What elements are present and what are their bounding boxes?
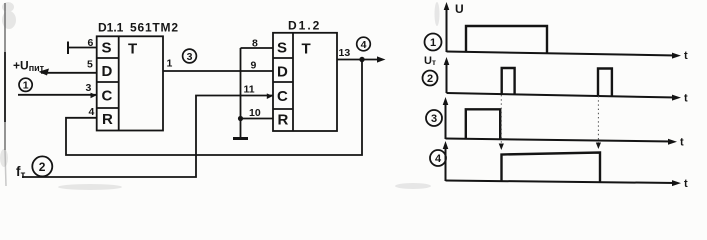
svg-text:t: t [680,137,684,149]
svg-text:561ТМ2: 561ТМ2 [130,21,179,35]
svg-text:C: C [277,88,288,105]
junction dot on R net [238,116,243,121]
svg-text:2: 2 [427,73,433,85]
D1.2 pin letters S D C R T [277,40,311,129]
node 3 circle [183,49,197,63]
junction dot output node [359,57,364,62]
wire pin 8 (S input) [241,47,274,49]
svg-text:U: U [455,2,464,16]
svg-text:11: 11 [244,84,255,96]
ground bar [233,137,248,140]
pin 6 tick terminal [67,42,69,55]
waveform 4: wide pulse [502,153,601,183]
svg-text:fт: fт [16,164,26,181]
svg-text:Uт: Uт [424,55,436,67]
trace 2 time axis with arrow [447,93,682,101]
clock arrow into pin 11 [267,93,273,99]
svg-text:t: t [684,93,688,105]
waveform 2: two narrow pulses [502,68,515,94]
svg-text:3: 3 [187,51,193,63]
trace 4 time axis with arrow [446,180,682,186]
svg-text:T: T [128,41,137,58]
svg-text:13: 13 [339,47,351,59]
trace 4 vertical axis [443,141,449,181]
svg-text:2: 2 [39,160,46,174]
wire fT to pin 11 (C of D1.2) [22,96,273,178]
scan artifact: faint smudges [0,2,440,190]
trace 2 vertical axis [444,57,450,93]
svg-text:R: R [102,111,113,128]
wire node 1 to pin 3 (C input) with clock arrow [18,93,97,99]
svg-text:10: 10 [249,107,261,119]
node 1 input circle [19,78,32,91]
trace 3 node circle 3 [426,110,442,126]
svg-text:3: 3 [431,113,437,125]
svg-text:+Uпит: +Uпит [13,59,45,74]
svg-text:4: 4 [361,39,367,51]
svg-text:3: 3 [86,82,92,94]
scan artifact: page left edge line [5,3,6,186]
dotted timing reference line 2 with down arrow [596,96,601,149]
waveform 1: single wide pulse [466,26,547,53]
svg-text:1: 1 [430,37,436,49]
svg-text:D: D [277,64,288,81]
svg-text:D: D [102,63,113,80]
wire pin 13 output of D1.2 with arrow [337,56,386,62]
wire pin 10 (R input) [241,118,274,120]
svg-text:1: 1 [23,80,29,92]
trace 4 node circle 4 [430,150,446,166]
D1.1 pin letters S D C R T [102,40,138,129]
trace 1 time axis with arrow [447,52,682,59]
trace 1 node circle 1 [425,34,442,51]
node 4 circle [357,37,371,51]
wire pin 6 to S [68,47,97,49]
node 2 input circle [32,156,52,176]
svg-text:6: 6 [88,37,94,49]
svg-text:D1.2: D1.2 [288,19,321,33]
IC D1.2 body [273,33,337,131]
svg-text:4: 4 [435,153,442,165]
dotted timing reference line 1 with down arrow [499,95,504,150]
wire pin 1 output of D1.1 to pin 9 (D of D1.2) [163,70,273,72]
wire pin 5 (D input) with arrow to +Upit [39,69,97,76]
svg-text:T: T [302,41,311,58]
ground net vertical (S and R of D1.2) [240,48,242,138]
svg-text:8: 8 [252,38,258,50]
svg-text:9: 9 [251,60,257,72]
svg-text:4: 4 [89,106,95,118]
svg-text:C: C [102,88,113,105]
svg-text:1: 1 [167,58,173,70]
trace 3 vertical axis [443,97,449,139]
wire pin 4 (R input) feedback from node 4 [66,60,362,156]
trace 2 node circle 2 [423,71,438,86]
waveform 3: one pulse at start [466,109,500,139]
svg-text:D1.1: D1.1 [98,21,124,35]
svg-text:S: S [277,40,287,57]
trace 3 time axis with arrow [446,139,678,145]
IC D1.1 body [97,36,163,130]
svg-text:5: 5 [87,59,93,71]
svg-text:S: S [102,40,112,57]
trace 1 vertical axis U [444,2,450,52]
svg-text:R: R [278,112,289,129]
svg-text:t: t [684,178,688,190]
svg-text:t: t [684,50,688,62]
